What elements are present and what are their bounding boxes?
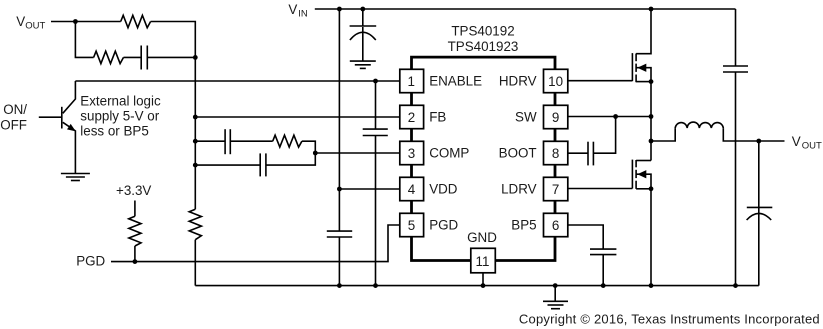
transistor Q1 emitter [63,122,76,173]
svg-text:V: V [792,134,801,149]
transistor Q1 base bar [61,107,63,129]
junction bus-Cin [733,283,738,288]
svg-text:2: 2 [408,110,415,125]
wire SW to pin 9 [568,116,651,118]
wire VDD to pin 4 [339,188,399,190]
wire C4 to ground [362,27,364,61]
junction ENABLE cap tap [373,79,378,84]
wire BP5 to C7 [568,225,603,249]
wire comp lower branch [195,164,260,166]
svg-text:supply 5-V or: supply 5-V or [80,108,159,123]
junction comp lower tap [193,163,198,168]
svg-text:Copyright © 2016, Texas Instru: Copyright © 2016, Texas Instruments Inco… [519,312,820,327]
svg-text:1: 1 [407,74,414,89]
junction bus-gnd [553,283,558,288]
junction bus-FET [649,283,654,288]
transistor Q2 (high-side NMOS) [632,9,651,82]
wire pin 11 to ground bus [482,273,484,286]
junction VDD tap [337,187,342,192]
svg-text:VDD: VDD [429,182,458,197]
svg-text:TPS401923: TPS401923 [448,39,519,54]
capacitor C10 (output bulk, polarized) [747,207,773,220]
wire HDRV to Q2 gate [568,80,633,82]
wire R5 to PGD line [134,246,136,262]
pin 10 box [544,69,568,92]
wire VOUT to C10 [758,141,760,286]
svg-text:BOOT: BOOT [499,146,537,161]
pin 9 box [544,105,568,128]
label external logic note [80,93,161,138]
junction VOUT node [73,19,78,24]
ground (below C4) [350,61,376,68]
wire C7 to ground bus [602,255,604,286]
node ON/OFF label [0,102,27,132]
transistor Q1 emitter arrow [67,124,76,131]
wire SW to L1 [651,128,675,141]
wire comp upper branch [195,140,225,142]
junction VIN-VDD [337,7,342,12]
resistor R5 (PGD pull-up) [129,216,141,246]
wire C8 to SW [593,117,615,154]
svg-text:FB: FB [429,110,446,125]
pin 1 box [400,69,424,92]
wire VIN rail corner down [735,9,737,66]
svg-text:COMP: COMP [429,146,469,161]
svg-text:TPS40192: TPS40192 [451,24,514,39]
svg-text:5: 5 [408,218,415,233]
svg-text:OUT: OUT [25,21,45,32]
wire VIN to VDD column [338,9,340,231]
junction bus-C7 [601,283,606,288]
wire lower branch left [75,22,93,58]
wire SW column [650,82,652,161]
junction FB tap [193,115,198,120]
junction VOUT-cap [756,139,761,144]
wire ENABLE to C6 [375,81,377,129]
wire VIN to C4 [362,9,364,26]
junction bus-C6 [373,283,378,288]
wire COMP to pin 3 [315,152,400,154]
wire C6 to ground bus [375,136,377,286]
svg-text:GND: GND [467,230,497,245]
svg-text:+3.3V: +3.3V [116,183,151,198]
wire feedback vertical [194,57,196,209]
transistor Q3 (low-side NMOS) [632,160,651,189]
wire ENABLE line [75,80,399,82]
capacitor C7 (BP5 bypass) [590,249,616,255]
wire PGD to pin 5 [111,225,400,262]
junction SW-inductor [649,139,654,144]
pin 11 box (GND pad) [471,248,496,272]
wire R1 to corner [151,22,196,58]
svg-text:IN: IN [298,8,308,19]
wire C1 to node [147,56,195,58]
wire ground bus [195,285,759,287]
wire +3.3V to R5 [134,201,136,217]
transistor Q1 collector [63,81,76,113]
wire VOUT to top divider [51,21,121,23]
wire base lead [39,116,62,118]
svg-text:External logic: External logic [80,93,161,108]
svg-text:LDRV: LDRV [501,182,537,197]
svg-text:V: V [16,14,25,29]
ground (main) [543,301,568,308]
wire R4 to comp node [302,141,315,153]
capacitor C1 (feedforward) [141,46,147,70]
svg-text:BP5: BP5 [511,218,536,233]
inductor L1 [675,122,723,128]
pin 8 box [544,141,568,164]
wire C9 to ground bus [735,72,737,286]
wire C3 to comp node [266,153,315,165]
junction Q2 source [649,79,654,84]
wire R3 bottom to ground bus [194,240,196,286]
svg-text:6: 6 [552,218,559,233]
capacitor C3 (comp) [260,153,266,176]
wire VIN rail [315,8,736,10]
junction pin11-bus [481,283,486,288]
pin 4 box [400,177,424,200]
junction bus-C5 [337,283,342,288]
node VOUT (left label) [16,14,45,32]
resistor R4 (comp) [273,135,302,147]
pin 7 box [544,177,568,200]
capacitor C5 (VDD decoupling) [327,231,352,237]
svg-text:7: 7 [552,182,559,197]
wire Q3 source to ground bus [650,189,652,286]
wire C2 to R4 [230,140,272,142]
svg-text:ON/: ON/ [3,102,27,117]
junction VIN-FET [649,7,654,12]
pin 5 box [400,213,424,236]
svg-text:PGD: PGD [76,253,105,268]
resistor R3 (lower feedback) [189,209,201,240]
node VOUT (right label) [792,134,822,152]
junction comp node [313,151,318,156]
svg-text:8: 8 [552,146,559,161]
svg-text:SW: SW [515,110,537,125]
junction VIN-Cin [360,7,365,12]
ground (below Q1) [61,174,90,181]
junction PGD pull-up [133,259,138,264]
capacitor C8 (bootstrap) [588,142,593,166]
wire FB to pin 2 [195,116,399,118]
svg-text:11: 11 [476,254,490,269]
wire L1 to VOUT [723,128,784,141]
capacitor C2 (comp series) [225,129,230,154]
svg-text:V: V [288,2,297,17]
capacitor C6 (enable) [363,129,388,135]
wire R2 to C1 [124,56,142,58]
junction SW node [649,114,654,119]
label U1 part numbers [448,24,519,54]
wire LDRV to Q3 gate [568,188,633,190]
svg-text:OUT: OUT [802,141,822,152]
junction divider node [193,55,198,60]
svg-text:OFF: OFF [0,117,27,132]
resistor R2 (feedforward) [94,51,124,63]
svg-text:PGD: PGD [429,218,458,233]
wire C5 to ground bus [338,237,340,286]
capacitor C4 (VIN decoupling, polarized) [350,26,377,40]
svg-text:10: 10 [548,74,563,89]
svg-text:9: 9 [552,110,559,125]
svg-text:HDRV: HDRV [499,74,537,89]
op-amp U1 outline (TPS40192 IC body) [412,57,556,260]
junction SW-boot [613,114,618,119]
pin 3 box [400,141,424,164]
node VIN label [288,2,308,20]
wire ground stub [554,286,556,302]
junction Q3 source [649,186,654,191]
svg-text:3: 3 [408,146,415,161]
svg-text:ENABLE: ENABLE [429,74,482,89]
resistor R1 (upper feedback) [121,15,151,27]
pin 2 box [400,105,424,128]
svg-text:less or BP5: less or BP5 [80,123,148,138]
pin 6 box [544,213,568,236]
capacitor C9 (input bulk) [723,66,748,72]
wire BOOT to C8 [568,152,588,154]
junction comp upper tap [193,139,198,144]
svg-text:4: 4 [408,182,416,197]
